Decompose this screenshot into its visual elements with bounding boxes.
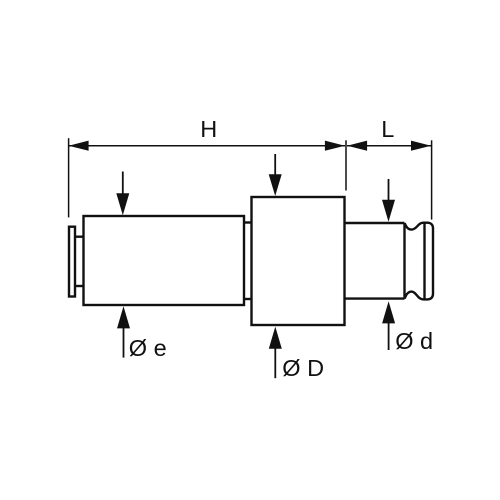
svg-text:Ø d: Ø d <box>395 328 433 354</box>
svg-text:Ø D: Ø D <box>282 355 324 381</box>
svg-text:H: H <box>200 116 217 142</box>
svg-text:L: L <box>381 116 394 142</box>
svg-text:Ø e: Ø e <box>129 335 167 361</box>
